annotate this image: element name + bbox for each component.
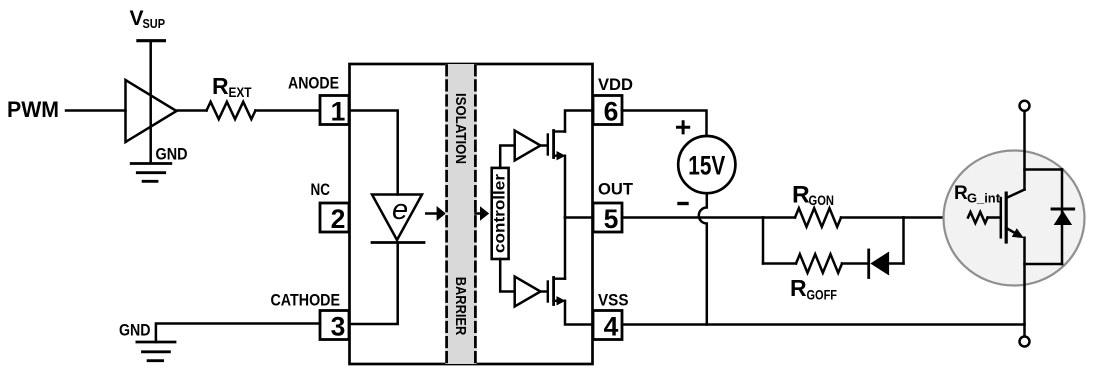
wire buffer to gate Q1 — [541, 144, 548, 147]
wire pin4 VSS to emitter rail — [622, 323, 1025, 326]
wire diode to junction — [889, 262, 903, 265]
terminal emitter circle — [1020, 337, 1030, 347]
svg-text:VSS: VSS — [598, 291, 629, 310]
IGBT module circle — [944, 151, 1085, 286]
wire GND to pin3 — [156, 324, 320, 343]
svg-text:NC: NC — [311, 180, 331, 199]
wire buffer output to R_EXT — [177, 109, 207, 112]
pin 3 box — [320, 311, 349, 340]
svg-text:GON: GON — [809, 193, 835, 208]
wire to R_GOFF — [763, 262, 796, 265]
svg-text:5: 5 — [604, 204, 619, 234]
svg-text:ISOLATION: ISOLATION — [452, 93, 469, 164]
svg-text:controller: controller — [492, 174, 509, 253]
LED D1 (emitter) — [372, 195, 422, 241]
wire OUT rail to pin5 — [565, 216, 593, 219]
wire top branch to diode — [1025, 168, 1063, 171]
buffer U5 (bottom driver) — [515, 277, 541, 307]
ground (buffer) — [131, 164, 171, 182]
controller U3 box — [492, 168, 509, 259]
node plus sign — [678, 122, 689, 133]
IC U2 body — [350, 64, 593, 364]
power rail V_SUP bar — [138, 39, 165, 42]
pin 1 box — [320, 96, 349, 125]
wire Q2 source to VSS — [565, 301, 593, 325]
wire branch split — [762, 218, 765, 264]
wire Q1 source to OUT rail — [564, 156, 567, 218]
LED cathode bar — [372, 241, 424, 244]
isolation barrier bar — [445, 64, 477, 364]
pin 5 box — [593, 203, 622, 232]
node minus sign — [679, 202, 687, 205]
wire diode branch vertical — [1061, 170, 1064, 265]
resistor R_GOFF — [796, 254, 842, 273]
wire controller to bottom buffer — [500, 259, 515, 292]
wire emitter rail down — [1023, 238, 1026, 337]
resistor R_G_int — [968, 212, 988, 223]
svg-text:OUT: OUT — [598, 180, 634, 199]
resistor R_GON — [795, 208, 841, 227]
svg-text:3: 3 — [331, 311, 346, 341]
wire junction to R_G_int — [904, 216, 969, 219]
wire to R_GON — [763, 216, 795, 219]
wire OUT rail down to Q2 drain — [564, 218, 567, 279]
svg-text:CATHODE: CATHODE — [271, 291, 341, 310]
wire LED cathode to pin3 — [350, 243, 398, 325]
wire bottom branch to diode — [1025, 263, 1063, 266]
wire controller to top buffer — [500, 146, 515, 168]
diode D2 (turn-off) — [867, 250, 870, 278]
diode D3 (freewheeling) — [1052, 208, 1074, 211]
resistor R_EXT label — [212, 73, 252, 100]
svg-text:R: R — [790, 275, 807, 301]
svg-text:1: 1 — [331, 96, 346, 126]
svg-text:SUP: SUP — [143, 16, 166, 31]
svg-text:4: 4 — [604, 311, 619, 341]
svg-text:6: 6 — [604, 96, 619, 126]
svg-text:2: 2 — [331, 204, 346, 234]
transistor Q2 (bottom MOSFET) — [548, 278, 565, 305]
wire 15V minus with hop over OUT — [699, 193, 707, 324]
pin 6 box — [593, 96, 622, 125]
svg-text:VDD: VDD — [598, 75, 633, 94]
svg-text:PWM: PWM — [7, 97, 59, 122]
resistor R_EXT — [207, 102, 256, 119]
wire R_G_int to gate — [988, 216, 1001, 219]
wire collector diagonal — [1006, 190, 1024, 199]
pin 2 box — [320, 203, 349, 232]
svg-text:e: e — [392, 194, 408, 226]
wire PWM to buffer — [66, 109, 126, 112]
svg-text:R: R — [792, 182, 810, 209]
svg-text:G_int: G_int — [967, 192, 1001, 206]
wire emitter diagonal with arrow — [1006, 228, 1018, 235]
svg-text:15V: 15V — [688, 151, 725, 181]
source V1 15V — [678, 136, 735, 193]
resistor R_GOFF label — [790, 275, 837, 303]
wire V_SUP through buffer to ground — [149, 41, 152, 163]
buffer U4 (top driver) — [515, 131, 541, 161]
wire junction riser — [902, 218, 905, 264]
svg-text:R: R — [212, 73, 229, 99]
svg-text:V: V — [130, 7, 144, 30]
svg-text:GOFF: GOFF — [807, 288, 838, 303]
wire pin5 OUT to gate resistors — [622, 216, 763, 219]
wire R_GON to junction — [841, 216, 904, 219]
svg-text:R: R — [954, 183, 968, 204]
wire collector rail up — [1023, 111, 1026, 190]
transistor Q3 (IGBT) — [1000, 198, 1003, 237]
svg-text:ANODE: ANODE — [288, 74, 339, 93]
pin 4 box — [593, 311, 622, 340]
buffer U1 (PWM driver triangle) — [126, 80, 177, 142]
wire R_GOFF to diode — [842, 262, 867, 265]
arrow LED to barrier — [426, 212, 437, 215]
transistor Q1 (top MOSFET) — [548, 131, 565, 158]
wire pin1 to LED anode — [350, 111, 398, 195]
svg-text:EXT: EXT — [229, 85, 253, 100]
wire Q1 drain to VDD — [565, 111, 593, 132]
wire pin6 to 15V plus — [622, 111, 707, 137]
terminal collector circle — [1020, 101, 1030, 111]
svg-text:BARRIER: BARRIER — [452, 277, 469, 336]
resistor R_G_int label — [954, 183, 1001, 206]
wire buffer to gate Q2 — [541, 290, 548, 293]
svg-text:GND: GND — [119, 322, 151, 340]
svg-text:GND: GND — [156, 146, 188, 164]
resistor R_GON label — [792, 182, 834, 209]
ground (cathode) — [137, 342, 175, 361]
wire R_EXT to pin 1 — [255, 109, 319, 112]
node V_SUP label — [130, 7, 166, 31]
arrow barrier to controller — [476, 212, 482, 215]
